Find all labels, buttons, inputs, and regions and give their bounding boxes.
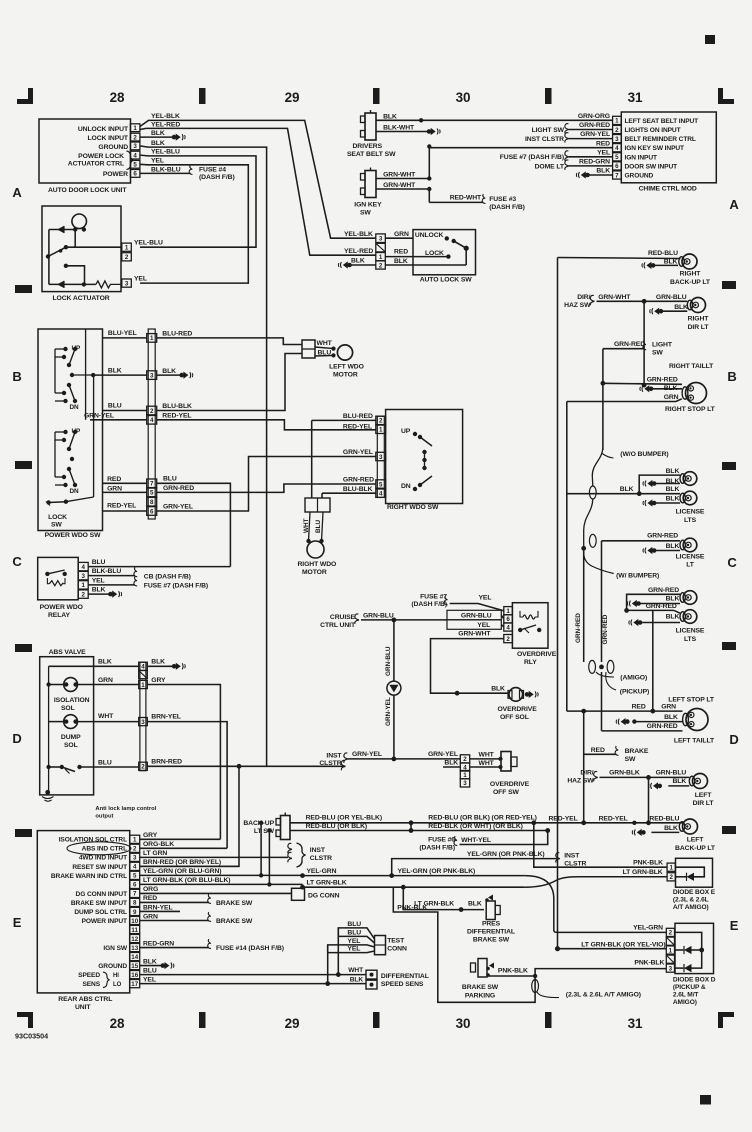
- lock actuator motor terminals: [73, 227, 86, 231]
- label FUSE #7 chime: [500, 154, 564, 161]
- label BLU left motor: [318, 350, 332, 357]
- label BLK abs: [98, 659, 112, 666]
- label BLK autolock right: [394, 258, 408, 265]
- svg-text:GRN: GRN: [107, 485, 122, 492]
- column number 28 bottom: [110, 1016, 125, 1031]
- edge block right 2: [722, 462, 736, 470]
- wire GRN-BLK dir left: [600, 775, 690, 780]
- label BLK relay: [92, 587, 106, 594]
- svg-text:LICENSE: LICENSE: [676, 509, 705, 516]
- svg-text:1: 1: [506, 608, 510, 615]
- label GRN ltail: [661, 704, 676, 711]
- label BL K right abs: [151, 659, 165, 666]
- svg-text:POWER LOCK: POWER LOCK: [78, 153, 124, 160]
- svg-text:GRN-RED: GRN-RED: [614, 341, 645, 348]
- label ORG rear: [143, 886, 158, 893]
- license bulb 2: [680, 491, 697, 505]
- ground lic lt: [643, 547, 656, 554]
- row letter A right: [729, 197, 739, 212]
- fuse7 squiggle relay: [134, 576, 137, 586]
- left stop lt caption: [668, 697, 715, 704]
- label BLU t1: [347, 921, 361, 928]
- svg-text:DIR LT: DIR LT: [693, 800, 715, 807]
- left back-up caption: [675, 837, 716, 853]
- rear abs HI LO: [113, 973, 122, 988]
- long vertical RED-BLU net: [557, 258, 559, 949]
- rear abs pin 5: [130, 871, 140, 879]
- wire BLK relay: [88, 593, 109, 595]
- svg-text:LT GRN-BLK: LT GRN-BLK: [623, 869, 663, 876]
- rear abs pin 2: [130, 844, 140, 852]
- svg-text:LOCK: LOCK: [425, 250, 444, 257]
- label RED-BLU OR BLK OR RED-YEL: [428, 815, 536, 822]
- wire BLU rear: [336, 972, 341, 977]
- border corner mark bottom-left: [17, 1012, 33, 1028]
- svg-text:REAR ABS CTRL: REAR ABS CTRL: [58, 996, 112, 1003]
- svg-text:15: 15: [131, 963, 138, 970]
- svg-text:WHT: WHT: [317, 340, 333, 347]
- svg-text:SW: SW: [51, 522, 62, 529]
- label RED autolock: [394, 249, 408, 256]
- chime pin 7: [613, 171, 622, 179]
- wire BLU GRN-RED long: [157, 483, 231, 566]
- wire GRN-YEL pw: [90, 419, 147, 421]
- ground stop right: [640, 385, 653, 392]
- svg-text:RED-YEL: RED-YEL: [599, 816, 628, 823]
- rw contacts: [413, 432, 432, 491]
- svg-text:BRAKE SW: BRAKE SW: [216, 918, 253, 925]
- label BLU-BLK row2: [162, 403, 192, 410]
- label PNK-BLK parking: [498, 968, 528, 975]
- svg-text:2: 2: [506, 636, 510, 643]
- svg-text:UP: UP: [401, 428, 411, 435]
- svg-text:YEL-RED: YEL-RED: [344, 248, 373, 255]
- label RED-GRN chime: [579, 159, 610, 166]
- column number 30 bottom: [456, 1016, 471, 1031]
- license bracket vertical: [639, 475, 680, 494]
- abs pin 1: [139, 680, 148, 688]
- pickup pointer: [606, 672, 616, 690]
- label BLU t2: [347, 929, 361, 936]
- wire WHT-YEL fuse6: [460, 831, 548, 845]
- svg-text:ORG: ORG: [143, 886, 158, 893]
- svg-text:RED: RED: [107, 476, 121, 483]
- svg-text:PNK-BLK: PNK-BLK: [397, 905, 427, 912]
- brake sw squiggle 1: [208, 894, 211, 904]
- svg-text:2: 2: [669, 874, 673, 881]
- svg-text:RED-BLU (OR YEL-BLK): RED-BLU (OR YEL-BLK): [306, 815, 382, 822]
- label BLK stop: [664, 385, 678, 392]
- jog pin5 to mid row: [302, 874, 304, 876]
- svg-text:SOL: SOL: [64, 742, 78, 749]
- chime label IGN KEY SW INPUT: [625, 145, 685, 152]
- svg-text:GRN-BLK: GRN-BLK: [609, 770, 640, 777]
- diode box D hatch 2: [666, 955, 674, 963]
- amigo at oval: [532, 980, 539, 993]
- svg-text:D: D: [729, 732, 738, 747]
- wire YEL-BLU pin4: [140, 155, 256, 247]
- rear abs label POWER INPUT: [82, 918, 127, 925]
- svg-text:4: 4: [141, 664, 145, 671]
- wire BLU-BLK to right motor: [322, 492, 376, 494]
- svg-text:1: 1: [133, 837, 137, 844]
- svg-text:1: 1: [141, 682, 145, 689]
- svg-text:GRN-ORG: GRN-ORG: [578, 113, 610, 120]
- svg-text:GRN: GRN: [661, 704, 676, 711]
- inst clstr big brace: [297, 843, 306, 867]
- label GRN-WHT od: [458, 630, 491, 637]
- chime label LIGHTS ON INPUT: [625, 127, 681, 134]
- svg-text:FUSE #14 (DASH F/B): FUSE #14 (DASH F/B): [216, 945, 284, 952]
- label RED brakesw: [591, 747, 605, 754]
- svg-text:BLK: BLK: [664, 825, 678, 832]
- label GRN-YEL vertical: [385, 697, 392, 726]
- svg-text:6: 6: [150, 508, 154, 515]
- label GROUND: [98, 144, 128, 151]
- label INST CLSTR mid: [319, 753, 342, 768]
- label WHT odsw1: [479, 752, 495, 759]
- svg-text:5: 5: [379, 481, 383, 488]
- jog pin6 to mid row: [302, 884, 304, 887]
- svg-text:IGN KEY: IGN KEY: [354, 202, 382, 209]
- svg-text:3: 3: [141, 719, 145, 726]
- svg-text:2: 2: [379, 418, 383, 425]
- svg-text:BLK: BLK: [596, 168, 610, 175]
- label BLK-BLU row7: [151, 167, 181, 174]
- svg-text:C: C: [12, 554, 22, 569]
- right wdo sw pin 1: [376, 425, 386, 434]
- svg-text:SW: SW: [625, 756, 636, 763]
- svg-text:RED-GRN: RED-GRN: [143, 940, 174, 947]
- label FUSE #3: [489, 196, 516, 203]
- wire ORG-BLK rear: [140, 847, 227, 849]
- label INST CLSTR bottom: [564, 853, 586, 868]
- dg conn box: [292, 888, 305, 900]
- svg-text:ACTUATOR CTRL: ACTUATOR CTRL: [68, 161, 124, 168]
- svg-text:BLK: BLK: [664, 385, 678, 392]
- hook light sw: [565, 124, 569, 134]
- od off sw symbol: [498, 752, 517, 772]
- svg-text:4: 4: [150, 417, 154, 424]
- label BLK od sol: [491, 686, 505, 693]
- svg-text:BLU: BLU: [315, 519, 322, 533]
- pw connector pin 2: [147, 406, 157, 415]
- label FUSE #4: [199, 167, 226, 174]
- wire YEL od slant: [450, 604, 504, 611]
- fuse #3 squiggle: [482, 194, 485, 203]
- pw lock sw contacts: [46, 500, 68, 506]
- label GRN-RED row5: [163, 485, 194, 492]
- auto door lock unit caption: [48, 187, 127, 194]
- label BLK-WHT seatbelt: [383, 125, 415, 132]
- svg-text:RIGHT WDO SW: RIGHT WDO SW: [387, 504, 439, 511]
- wire BLK lic5: [640, 603, 680, 605]
- svg-text:(AMIGO): (AMIGO): [620, 675, 647, 682]
- svg-text:LTS: LTS: [684, 636, 697, 643]
- od rly pin 2: [504, 635, 513, 643]
- brake sw squiggle right: [615, 746, 618, 756]
- label BLK lic3: [666, 486, 680, 493]
- label ACTUATOR CTRL: [68, 161, 124, 168]
- wire BLK odsw: [443, 766, 460, 768]
- diode box E pin 1: [667, 863, 675, 871]
- lock actuator diode bottom: [57, 281, 86, 288]
- wire BLU-RED to right sw pin2: [312, 419, 376, 421]
- label GRN-ORG: [578, 113, 610, 120]
- relay pin 3: [78, 571, 88, 580]
- label GRN-RED chime: [579, 122, 610, 129]
- right wdo motor leads: [306, 512, 323, 543]
- vertical pnk-blk diodeE: [534, 823, 667, 867]
- svg-text:FUSE #3: FUSE #3: [489, 196, 516, 203]
- rear abs label SPEED SENS: [78, 972, 101, 988]
- svg-text:(PICKUP): (PICKUP): [620, 689, 649, 696]
- label FUSE #14: [216, 945, 284, 952]
- svg-text:1: 1: [125, 245, 129, 252]
- inst clstr hooks rear: [288, 843, 292, 862]
- svg-text:CONN: CONN: [387, 946, 407, 953]
- label WHT right motor: [303, 518, 310, 533]
- fuse14 squiggle: [208, 939, 211, 949]
- wire BLK abs ground stub: [148, 665, 172, 667]
- label INST CLSTR chime: [525, 136, 564, 143]
- label YEL-GRN diodeD: [633, 925, 663, 932]
- label BLU pw: [108, 403, 122, 410]
- svg-text:CRUISE: CRUISE: [330, 614, 356, 621]
- dir haz hook right: [590, 295, 594, 305]
- dump sol caption: [61, 734, 81, 749]
- svg-text:output: output: [95, 814, 113, 820]
- relay contacts: [45, 570, 67, 576]
- svg-text:DN: DN: [70, 488, 80, 495]
- label GRN-RED lic3: [648, 587, 679, 594]
- junction light sw vertical: [601, 381, 606, 386]
- svg-text:LEFT: LEFT: [687, 837, 705, 844]
- hook inst clstr chime: [565, 133, 569, 143]
- svg-text:DIODE BOX D: DIODE BOX D: [673, 977, 716, 984]
- svg-text:DUMP: DUMP: [61, 734, 81, 741]
- svg-text:RLY: RLY: [524, 659, 537, 666]
- ign key sw caption: [354, 202, 382, 217]
- isolation sol caption: [54, 697, 90, 712]
- svg-text:GRN-BLU: GRN-BLU: [656, 770, 687, 777]
- svg-text:YEL-GRN (OR BLU-GRN): YEL-GRN (OR BLU-GRN): [143, 868, 221, 875]
- svg-text:CLSTR: CLSTR: [319, 760, 341, 767]
- label LT GRN-BLK mid: [307, 880, 347, 887]
- label BRN-YEL rear: [143, 904, 173, 911]
- wire GRN-YEL odsw row: [348, 758, 460, 760]
- left dir lt caption: [693, 792, 715, 807]
- wire lt grn-blk pres: [403, 887, 484, 912]
- wire GRN stop: [567, 399, 682, 402]
- diode D internals: [675, 932, 705, 972]
- svg-text:GRN-WHT: GRN-WHT: [458, 630, 491, 637]
- label YEL-BLU actuator: [134, 240, 163, 247]
- column number 30 top: [456, 90, 471, 105]
- svg-text:GRN-BLU: GRN-BLU: [656, 294, 687, 301]
- label LT GRN-BLK diodeE: [623, 869, 663, 876]
- wire GRY rear: [140, 838, 221, 840]
- svg-text:POWER WDO SW: POWER WDO SW: [45, 532, 101, 539]
- wire BLK pin3 long down: [140, 146, 346, 766]
- svg-text:LO: LO: [113, 982, 122, 988]
- wire GRN-RED jog row: [157, 484, 376, 492]
- svg-text:2: 2: [133, 134, 137, 141]
- abs hatch box: [139, 671, 148, 679]
- w bumper oval: [589, 534, 596, 547]
- rear abs label DUMP SOL CTRL: [74, 909, 127, 916]
- chime label BELT REMINDER CTRL: [625, 136, 696, 143]
- chime ctrl mod box: [621, 112, 716, 183]
- svg-text:PRES: PRES: [482, 921, 501, 928]
- label RED-BLU lb: [649, 816, 679, 823]
- svg-text:RIGHT TAILLT: RIGHT TAILLT: [669, 363, 714, 370]
- svg-text:RED-BLU: RED-BLU: [649, 816, 679, 823]
- junction dot BRN-RED: [237, 764, 242, 769]
- svg-text:GROUND: GROUND: [625, 173, 654, 180]
- vertical RED to ign key: [427, 144, 431, 180]
- rear abs label RESET SW INPUT: [72, 864, 127, 871]
- label WHT speed: [348, 967, 363, 974]
- svg-text:YEL: YEL: [92, 577, 105, 584]
- svg-text:RED-GRN: RED-GRN: [579, 159, 610, 166]
- svg-text:LT GRN: LT GRN: [143, 850, 167, 857]
- svg-text:GRN-RED: GRN-RED: [579, 122, 610, 129]
- lock actuator bottom wire: [49, 283, 96, 285]
- svg-text:FUSE #4: FUSE #4: [199, 167, 226, 174]
- svg-text:2: 2: [150, 408, 154, 415]
- svg-text:GRN-WHT: GRN-WHT: [383, 172, 416, 179]
- svg-text:GROUND: GROUND: [98, 963, 127, 970]
- rear abs pin 13: [130, 943, 140, 951]
- svg-text:29: 29: [285, 1016, 300, 1031]
- svg-text:GRN-YEL: GRN-YEL: [163, 503, 193, 510]
- hook fuse7 chime: [565, 151, 569, 161]
- rear abs pin 6: [130, 880, 140, 888]
- label WHT odsw2: [479, 760, 495, 767]
- svg-text:GRN-RED: GRN-RED: [163, 485, 194, 492]
- wire BLK dir left: [668, 785, 689, 787]
- wire pnk-blk down: [393, 887, 666, 1002]
- svg-text:RED-BLK (OR WHT) (OR BLK): RED-BLK (OR WHT) (OR BLK): [428, 823, 523, 830]
- svg-text:5: 5: [615, 154, 619, 161]
- svg-text:13: 13: [131, 945, 138, 952]
- svg-text:GRN-RED: GRN-RED: [647, 377, 678, 384]
- junction amigo: [599, 665, 604, 670]
- autolock lock contact: [446, 254, 450, 258]
- pw sw2 dn label: [70, 488, 80, 495]
- svg-text:RED-BLU (OR BLK) (OR RED-YEL): RED-BLU (OR BLK) (OR RED-YEL): [428, 815, 536, 822]
- rear abs pin 10: [130, 916, 140, 924]
- svg-text:GRN-RED: GRN-RED: [602, 614, 609, 644]
- svg-text:GRN-YEL: GRN-YEL: [428, 751, 458, 758]
- svg-text:WHT: WHT: [479, 760, 495, 767]
- right stop lt caption: [665, 406, 716, 413]
- wire BLK pin2 to ground: [140, 136, 173, 138]
- vertical BLU-BLK motor: [321, 493, 323, 498]
- svg-text:(2.3L & 2.6L: (2.3L & 2.6L: [673, 897, 709, 904]
- label BLK backup right: [664, 258, 678, 265]
- pw connector pin 8: [147, 497, 157, 506]
- svg-text:LOCK: LOCK: [48, 514, 67, 521]
- lock actuator diode top: [57, 226, 64, 233]
- svg-text:BACK-UP LT: BACK-UP LT: [670, 279, 711, 286]
- svg-text:A: A: [729, 197, 739, 212]
- svg-text:BLK: BLK: [666, 614, 680, 621]
- ground ltail: [616, 718, 629, 725]
- autolock hatch box: [376, 243, 386, 252]
- vertical backup row1 left: [410, 823, 412, 831]
- od rly contacts: [518, 625, 541, 633]
- relay pin 2: [78, 590, 88, 599]
- back-up lt sw symbol: [276, 813, 290, 840]
- svg-text:LICENSE: LICENSE: [676, 554, 705, 561]
- svg-text:12: 12: [131, 936, 138, 943]
- label YEL-RED row2: [151, 122, 180, 129]
- label YEL-RED autolock: [344, 248, 373, 255]
- label GRN stop: [664, 394, 679, 401]
- svg-text:YEL-GRN (OR PNK-BLK): YEL-GRN (OR PNK-BLK): [398, 868, 476, 875]
- wire yel-grn inst clstr: [389, 859, 557, 878]
- wire BLK-WHT to ground: [376, 131, 428, 133]
- wire BLK lic lt: [656, 550, 680, 552]
- svg-text:BLU: BLU: [163, 476, 177, 483]
- svg-text:POWER INPUT: POWER INPUT: [82, 918, 127, 925]
- diode box E box: [676, 858, 713, 887]
- label BACK-UP LT SW: [243, 820, 274, 835]
- left dir lt bulb: [689, 774, 707, 789]
- rear abs pin 12: [130, 934, 140, 942]
- right wdo sw caption: [387, 504, 439, 511]
- label YEL-BLK autolock: [344, 231, 373, 238]
- od off sw pin 3: [460, 779, 469, 787]
- lock actuator pin 2: [122, 253, 132, 261]
- label BLK odsw: [444, 760, 458, 767]
- label RED-YEL pw: [107, 503, 136, 510]
- wire WHT odsw2: [470, 766, 500, 768]
- label LT GRN-BLK OR YEL-VIO: [581, 942, 665, 949]
- svg-text:BLU-BLK: BLU-BLK: [162, 403, 192, 410]
- svg-text:DRIVERS: DRIVERS: [353, 143, 383, 150]
- svg-text:BLU-RED: BLU-RED: [343, 413, 373, 420]
- svg-text:BRN-RED: BRN-RED: [151, 759, 182, 766]
- oval around ABS IND CTRL: [67, 842, 131, 855]
- lock actuator box: [42, 206, 121, 292]
- autolock pin 1: [376, 253, 386, 261]
- lock actuator top wire: [49, 229, 75, 231]
- wire yel-grn diodeD: [558, 931, 667, 933]
- boxed label YEL od: [447, 620, 501, 629]
- svg-text:GRN-BLU: GRN-BLU: [385, 646, 392, 676]
- label LOCK: [425, 250, 444, 257]
- right back-up lt bulb: [679, 254, 697, 269]
- relay pin 4: [78, 562, 88, 571]
- svg-text:UNLOCK INPUT: UNLOCK INPUT: [78, 126, 129, 133]
- svg-text:BRAKE SW: BRAKE SW: [473, 937, 510, 944]
- svg-text:BLK-BLU: BLK-BLU: [92, 568, 122, 575]
- svg-text:IGN INPUT: IGN INPUT: [625, 154, 658, 161]
- label GRN autolock: [394, 231, 409, 238]
- svg-text:YEL: YEL: [597, 149, 610, 156]
- abs pin 3: [139, 718, 148, 726]
- svg-text:(DASH F/B): (DASH F/B): [489, 204, 525, 211]
- wire GRN-WHT row1: [376, 178, 429, 180]
- right wdo motor connector: [305, 498, 330, 512]
- lock actuator mid contact: [64, 264, 85, 285]
- svg-text:BRAKE SW INPUT: BRAKE SW INPUT: [71, 900, 127, 907]
- auto lock sw caption: [420, 277, 473, 284]
- chime pin 5: [613, 153, 622, 161]
